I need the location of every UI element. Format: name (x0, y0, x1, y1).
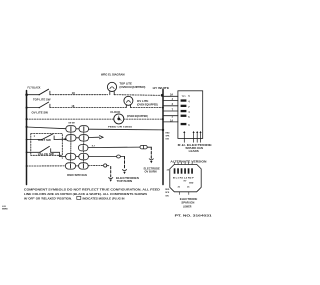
svg-text:LEADS: LEADS (189, 150, 199, 153)
module terminals (filled) (181, 99, 187, 101)
spark module box (178, 91, 203, 139)
lamp TOP LITE (107, 82, 145, 95)
svg-text:TOP LITE SW: TOP LITE SW (33, 97, 51, 101)
switch VAL FE SW (38, 146, 55, 156)
pin stubs above module (175, 163, 193, 165)
svg-text:CLOCK: CLOCK (110, 110, 120, 114)
module stub wires from bus (164, 95, 178, 97)
module bottom stubs (178, 192, 180, 195)
connector pair row5 (65, 163, 88, 169)
svg-text:WRG EL DIAGRAM: WRG EL DIAGRAM (101, 72, 125, 76)
connector pair row4 (66, 154, 89, 160)
wire row4 to top burner electrode (88, 156, 116, 158)
svg-text:TOP BURN: TOP BURN (117, 180, 133, 183)
svg-text:PT. NO. 3164031: PT. NO. 3164031 (175, 215, 213, 218)
svg-text:RED: RED (165, 189, 170, 191)
switch THST SW (37, 134, 54, 142)
svg-text:RED: RED (166, 132, 171, 134)
wire left bus (black feed) (26, 91, 28, 185)
svg-text:RED SPR IGN: RED SPR IGN (67, 174, 87, 177)
spark gap electrodes in module (183, 131, 201, 142)
svg-text:ELECTRODE: ELECTRODE (180, 198, 198, 201)
svg-text:LOWER: LOWER (183, 205, 192, 208)
lamp OV LITE (124, 96, 158, 107)
dashed enclosure thermostat box (31, 134, 63, 156)
svg-text:COMPONENT SYMBOLS DO NOT REFLE: COMPONENT SYMBOLS DO NOT REFLECT TRUE CO… (24, 188, 160, 192)
wire row2 dashed to lamp (50, 107, 126, 109)
connector pair row2 (66, 135, 89, 141)
inline connector (117, 155, 121, 158)
svg-text:WIRE: WIRE (2, 208, 8, 210)
svg-text:SPAR IGN: SPAR IGN (181, 202, 194, 205)
connector single row3 (78, 145, 88, 151)
electrode top burner (dashed lead) (109, 167, 113, 182)
wire right bus (white feed) (162, 90, 164, 185)
switch TOP LITE SW (33, 89, 51, 101)
svg-text:B L1 R1 L2 R2 F: B L1 R1 L2 R2 F (173, 178, 195, 180)
junction dot right bus top (161, 94, 164, 97)
wire row1 dashed to right bus (114, 94, 161, 97)
svg-text:INDICATES MODULE (PLUG IN: INDICATES MODULE (PLUG IN (83, 196, 125, 200)
svg-text:VAL FE SW: VAL FE SW (38, 153, 55, 156)
svg-text:BK WH: BK WH (69, 123, 76, 125)
wire bus to THST SW (27, 139, 43, 141)
interconnect dashes between connector rows (70, 132, 72, 134)
wire row4 to right bus (89, 128, 162, 131)
wire row2 open lead with terminal (89, 136, 100, 138)
svg-text:FL7 BLACK: FL7 BLACK (28, 85, 41, 89)
connector pair row1 (66, 126, 89, 132)
switch OV LITE SW (32, 102, 50, 115)
svg-text:GND: GND (189, 182, 194, 184)
svg-text:3A: 3A (170, 94, 173, 97)
svg-text:OV LITE SW: OV LITE SW (32, 111, 49, 115)
alternate spark module (octagon) (170, 164, 201, 191)
svg-text:THST SW: THST SW (37, 139, 51, 142)
wire bus to VAL FE SW (27, 151, 41, 153)
wire row3 dashed clock to right bus (124, 118, 162, 120)
svg-text:SPK: SPK (165, 192, 170, 194)
electrode oven burner (149, 147, 153, 163)
wire row5 dashed to ring terminal (88, 164, 103, 166)
svg-text:OV BURN: OV BURN (145, 171, 157, 174)
wire row3 to oven burner electrode (88, 146, 140, 149)
svg-text:(OVEN EQUIPPED): (OVEN EQUIPPED) (119, 86, 145, 89)
module pins (174, 168, 193, 173)
svg-text:FEED OR 10E50: FEED OR 10E50 (108, 126, 133, 128)
wire VAL to connector row4 (51, 152, 66, 156)
wire row2 dashed to right bus (131, 107, 162, 109)
wire THST to connector row2 (54, 138, 65, 140)
wire row3 dashed from bus to clock (27, 118, 114, 120)
svg-text:(OVEN EQUIPPED): (OVEN EQUIPPED) (137, 103, 158, 106)
wire row2 from bus to switch (27, 107, 40, 109)
note module box symbol (77, 196, 81, 199)
wire row4 bus to connector pair (27, 127, 66, 129)
svg-text:1A: 1A (170, 120, 173, 123)
svg-text:HY WHITE: HY WHITE (153, 86, 170, 90)
svg-text:IN 'OFF' OR 'RELAXED' POSITION: IN 'OFF' OR 'RELAXED' POSITION. (24, 196, 72, 200)
wire row1 from bus to switch (27, 94, 40, 96)
electrode top burner (solid) (122, 157, 126, 175)
wire row5 dashed bus to connector pair (27, 165, 66, 167)
svg-text:(OVEN EQUIPPED): (OVEN EQUIPPED) (127, 115, 148, 118)
wire row1 dashed (white) to lamp (50, 94, 108, 96)
clock motor (OVEN EQUIPPED) (110, 110, 148, 124)
svg-text:LINE COLORS ARE AS NOTED (BLAC: LINE COLORS ARE AS NOTED (BLACK & WHITE)… (24, 192, 147, 196)
svg-text:SPK: SPK (166, 136, 171, 138)
inline connector (140, 145, 147, 149)
junction dots on left bus (25, 93, 28, 96)
